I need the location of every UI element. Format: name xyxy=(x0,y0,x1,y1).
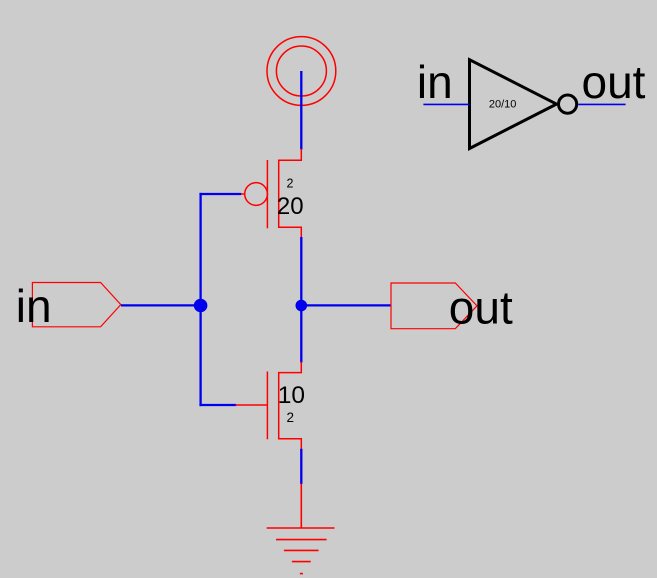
junction dot input net xyxy=(194,299,208,313)
transistor PMOS xyxy=(239,149,301,238)
port in (export pentagon) xyxy=(32,283,120,327)
svg-text:in: in xyxy=(16,280,52,332)
junction dot output net xyxy=(296,300,308,312)
port out (export pentagon) xyxy=(391,283,477,329)
icon inverter triangle U1 xyxy=(470,60,557,149)
wire VDD to PMOS source xyxy=(300,71,302,150)
transistor NMOS xyxy=(236,362,302,449)
ground symbol xyxy=(267,484,335,574)
svg-text:2: 2 xyxy=(287,176,294,190)
wire PMOS gate to corner xyxy=(201,193,240,195)
svg-text:2: 2 xyxy=(287,410,295,425)
icon wire in lead xyxy=(423,103,469,105)
power symbol VDD xyxy=(267,37,336,106)
svg-text:20/10: 20/10 xyxy=(489,99,517,111)
wire in port to junction xyxy=(121,304,201,306)
wire NMOS source to ground xyxy=(300,449,302,484)
svg-text:out: out xyxy=(582,56,646,108)
wire corner to NMOS gate xyxy=(201,404,235,406)
svg-text:10: 10 xyxy=(278,382,305,409)
svg-text:in: in xyxy=(417,56,453,108)
icon inverter output bubble xyxy=(559,95,577,113)
wire junction to out port xyxy=(301,304,391,306)
wire PMOS drain to NMOS drain xyxy=(300,237,302,363)
svg-text:out: out xyxy=(449,281,513,333)
svg-text:20: 20 xyxy=(277,193,304,220)
wire input vertical xyxy=(199,194,201,405)
icon wire out lead xyxy=(578,103,625,105)
